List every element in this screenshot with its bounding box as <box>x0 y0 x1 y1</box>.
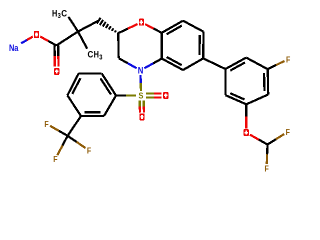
bond C2-C3 (ring) <box>117 33 120 58</box>
bond O-C carboxylate <box>40 37 48 41</box>
inner line C3'=C4' <box>72 78 80 94</box>
bond Cq-CH2 <box>78 21 99 32</box>
atom label O (carbonyl) <box>54 68 59 75</box>
bond CHF2-F (right) <box>268 139 276 144</box>
bond C6-C5 (aromatic) <box>183 58 203 70</box>
bond C3'-C4' (aromatic) <box>67 73 78 95</box>
bond C3''-C4'' (aromatic) <box>267 69 270 94</box>
inner line C5=C4a <box>167 57 182 65</box>
inner line C3''=C4'' <box>263 73 266 91</box>
bond C5-C4a (aromatic) <box>162 59 183 70</box>
bond C4''-C5'' (aromatic) <box>246 95 268 105</box>
bond C-F (lower-left) <box>62 136 67 146</box>
bond C4a-C8a (ring fusion) <box>161 33 163 59</box>
bond C6-C1'' (biaryl link) <box>203 58 225 69</box>
atom label O (sulfonyl O down) <box>139 113 144 120</box>
svg-text:F: F <box>87 146 91 156</box>
atom label O (difluoromethoxy) <box>244 129 249 136</box>
bond C1'-C2' (aromatic) <box>102 73 116 95</box>
inner line C5''=C6'' <box>230 93 244 99</box>
inner line C8a=C8 <box>167 26 182 35</box>
bond O1-C8a (ring) <box>145 24 153 28</box>
hashed wedge CH2 to C2 (stereo bond) <box>97 18 101 24</box>
bond C2'-C3' (aromatic) <box>79 72 102 74</box>
bond C6''-C1'' (aromatic) <box>224 69 226 95</box>
svg-text:S: S <box>139 91 144 101</box>
atom label O (sulfonyl O right) <box>163 92 168 99</box>
bond C2-O1 (ring) <box>118 29 128 34</box>
bond C5'-C(CF3) <box>68 116 81 136</box>
double bond C=O carbonyl <box>53 46 55 57</box>
bond C-F (upper-left) <box>59 131 68 136</box>
bond C3-N4 (ring) <box>119 58 128 63</box>
inner line C7=C6 <box>198 35 200 55</box>
bond C-F (right) <box>68 136 77 142</box>
svg-text:C: C <box>61 8 67 18</box>
bond N4-C4a (ring) <box>144 63 153 68</box>
bond C3''-F (aryl fluoro) <box>268 65 276 69</box>
atom label O (carboxylate O-) <box>34 31 39 38</box>
bond C5''-O (difluoromethoxy) <box>245 104 247 116</box>
bond C5''-C6'' (aromatic) <box>226 95 247 104</box>
inner line C5'=C6' <box>85 111 101 113</box>
bond Cq-CH3 (upper-left methyl) <box>68 17 78 32</box>
svg-text:3: 3 <box>99 54 102 61</box>
svg-text:F: F <box>264 163 268 173</box>
svg-text:F: F <box>53 154 57 164</box>
svg-text:F: F <box>44 119 48 129</box>
bond C1''-C2'' (aromatic) <box>225 58 246 69</box>
svg-text:F: F <box>286 127 290 137</box>
bond C4'-C5' (aromatic) <box>67 95 81 116</box>
bond Na-O (ionic) <box>21 40 27 43</box>
double bond S=O (down) <box>139 100 141 106</box>
svg-text:H: H <box>94 50 99 60</box>
bond N4-S (sulfonamide) <box>139 75 141 83</box>
bond C6'-C1' (aromatic) <box>104 96 116 117</box>
svg-text:F: F <box>286 54 290 64</box>
bond C5'-C6' (aromatic) <box>81 115 104 117</box>
bond C8a-C8 (aromatic) <box>162 21 183 33</box>
svg-text:H: H <box>52 8 57 18</box>
bond C(=O)-Cq <box>56 32 78 46</box>
bond C8-C7 (aromatic) <box>183 21 204 32</box>
bond Cq-CH3 (lower methyl) <box>78 32 87 49</box>
bond O-CHF2 <box>250 135 259 140</box>
atom label O (benzoxazine O1) <box>139 19 144 26</box>
bond CHF2-F (down) <box>266 145 269 155</box>
svg-text:Na: Na <box>9 43 19 53</box>
inner line C1'=C2' <box>100 78 111 94</box>
double bond S=O (right) <box>146 96 154 98</box>
bond S-C1' (to sulfonyl phenyl) <box>126 94 136 96</box>
bond C2''-C3'' (aromatic) <box>246 58 268 70</box>
inner line C1''=C2'' <box>230 63 245 71</box>
svg-text:N: N <box>138 66 144 76</box>
bond C7-C6 (aromatic) <box>202 32 205 59</box>
